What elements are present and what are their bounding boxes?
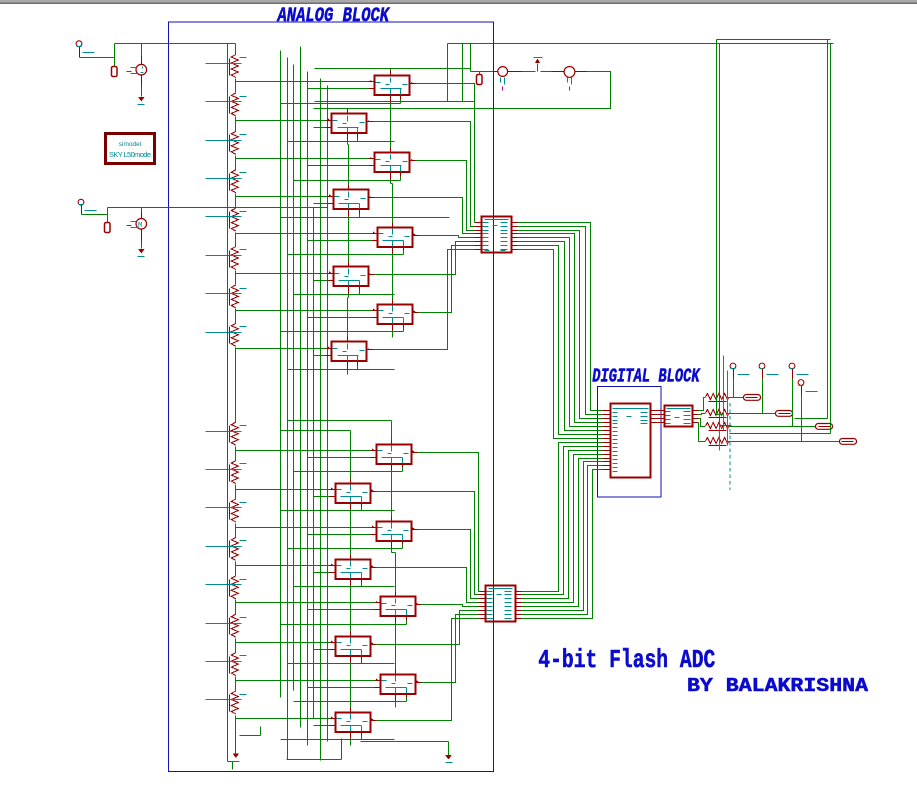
svg-text:4-bit Flash ADC: 4-bit Flash ADC: [538, 645, 715, 675]
svg-text:BY BALAKRISHNA: BY BALAKRISHNA: [687, 675, 868, 697]
svg-text:DIGITAL BLOCK: DIGITAL BLOCK: [592, 365, 700, 387]
svg-text:M: M: [138, 222, 143, 230]
svg-text:SKY L50mode: SKY L50mode: [109, 150, 151, 159]
svg-text:simodel: simodel: [119, 141, 142, 148]
svg-text:ANALOG BLOCK: ANALOG BLOCK: [276, 5, 391, 28]
